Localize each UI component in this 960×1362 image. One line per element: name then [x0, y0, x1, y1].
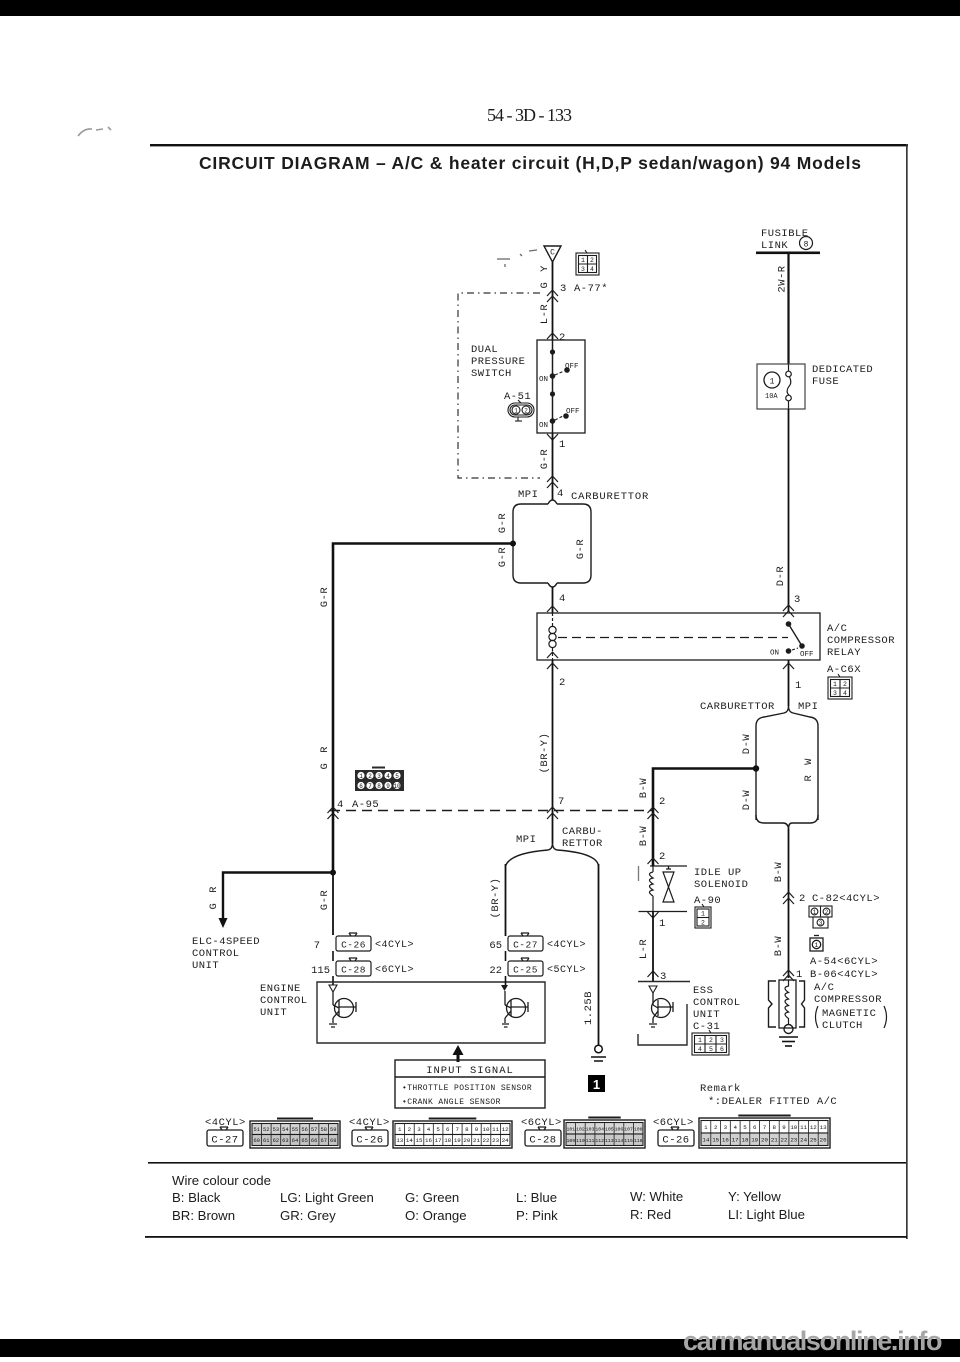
- pin 1 arrow below relay: [783, 663, 794, 669]
- svg-text:1: 1: [796, 969, 802, 981]
- svg-text:MPI: MPI: [516, 834, 536, 846]
- svg-text:C-28: C-28: [341, 965, 366, 976]
- junction dot ELC branch: [330, 870, 336, 876]
- crossing arrows into compressor: [783, 970, 794, 981]
- svg-text:ENGINE: ENGINE: [260, 983, 301, 995]
- svg-text:G-R: G-R: [497, 513, 509, 534]
- svg-text:•THROTTLE POSITION SENSOR: •THROTTLE POSITION SENSOR: [402, 1084, 532, 1093]
- wire BR-Y relay pin 2 down: [552, 660, 554, 843]
- dashed boundary around dual pressure switch: [458, 293, 540, 478]
- svg-text:1: 1: [795, 680, 801, 692]
- dedicated fuse label: [812, 364, 873, 388]
- pin 2 arrow into solenoid: [648, 858, 659, 864]
- svg-text:1: 1: [698, 1037, 702, 1044]
- svg-text:A-51: A-51: [504, 391, 531, 403]
- dedicated fuse element: [786, 364, 792, 409]
- bottom connector C-28 tag: [525, 1127, 561, 1147]
- connector A-51 icon: [508, 400, 534, 421]
- svg-text:1: 1: [398, 1126, 402, 1133]
- svg-text:Y: Yellow: Y: Yellow: [728, 1189, 781, 1204]
- connector A-C6X icon: [828, 674, 852, 699]
- wire G-R down to junction: [332, 810, 334, 935]
- dedicated fuse box: [757, 364, 805, 409]
- svg-text:CLUTCH: CLUTCH: [822, 1020, 863, 1032]
- svg-text:10: 10: [790, 1124, 797, 1131]
- crossing arrows C-82: [783, 892, 794, 904]
- svg-text:4: 4: [559, 593, 565, 605]
- wire relay pin 1 down: [788, 660, 790, 706]
- svg-text:C-27: C-27: [211, 1135, 238, 1147]
- thick wire branch to ELC-4speed: [223, 873, 333, 921]
- ESS input triangle: [649, 986, 657, 993]
- svg-text:24: 24: [800, 1137, 807, 1144]
- svg-text:53: 53: [273, 1127, 279, 1133]
- svg-text:G-R: G-R: [319, 587, 331, 608]
- svg-text:115: 115: [624, 1138, 633, 1144]
- svg-text:INPUT SIGNAL: INPUT SIGNAL: [426, 1065, 514, 1077]
- svg-text:56: 56: [301, 1127, 307, 1133]
- svg-text:5: 5: [709, 1046, 713, 1053]
- svg-text:<4CYL>: <4CYL>: [547, 940, 586, 951]
- contact1 dashed throw and labels: [555, 371, 564, 375]
- svg-text:O: Orange: O: Orange: [405, 1208, 467, 1223]
- ELC-4speed control unit label: [192, 936, 260, 972]
- svg-text:A-C6X: A-C6X: [827, 664, 861, 676]
- svg-text:A-90: A-90: [694, 895, 721, 907]
- svg-text:D-R: D-R: [775, 566, 787, 587]
- svg-text:2: 2: [559, 677, 565, 689]
- relay label: [827, 623, 895, 659]
- svg-text:1.25B: 1.25B: [583, 991, 595, 1025]
- left branch wire BR-Y to ECU connectors: [505, 864, 507, 936]
- pin 4 arrow: [547, 606, 558, 612]
- svg-text:19: 19: [454, 1137, 461, 1144]
- svg-text:A/C: A/C: [827, 623, 847, 635]
- svg-text:54: 54: [282, 1127, 288, 1133]
- svg-text:21: 21: [771, 1137, 778, 1144]
- svg-text:A-54<6CYL>: A-54<6CYL>: [810, 956, 878, 968]
- bottom connector C-27 pin block: [250, 1119, 340, 1149]
- pin 3 crossing arrows into relay: [783, 605, 794, 617]
- svg-text:BR: Brown: BR: Brown: [172, 1208, 235, 1223]
- svg-text:14: 14: [406, 1137, 413, 1144]
- ECU transistor right: [502, 991, 528, 1027]
- frame top line: [150, 144, 908, 146]
- svg-text:G-R: G-R: [575, 539, 587, 560]
- svg-text:3: 3: [560, 283, 566, 295]
- ECU input triangle right: [501, 985, 508, 991]
- svg-text:5: 5: [395, 773, 399, 780]
- svg-text:1: 1: [593, 1077, 600, 1092]
- svg-text:DUAL: DUAL: [471, 344, 498, 356]
- svg-text:R: Red: R: Red: [630, 1207, 671, 1222]
- svg-text:MAGNETIC: MAGNETIC: [822, 1008, 876, 1020]
- junction dot carb connector left: [510, 541, 516, 547]
- svg-text:58: 58: [320, 1127, 326, 1133]
- svg-text:1: 1: [659, 918, 665, 930]
- ECU transistor left: [329, 992, 356, 1027]
- svg-text:LI: Light Blue: LI: Light Blue: [728, 1207, 805, 1222]
- svg-text:C: C: [550, 249, 555, 258]
- connector C-25 tag 5cyl: [508, 958, 543, 976]
- svg-text:C-26: C-26: [662, 1135, 689, 1147]
- svg-text:4: 4: [557, 488, 563, 500]
- svg-text:1: 1: [581, 257, 585, 264]
- svg-text:DEDICATED: DEDICATED: [812, 364, 873, 376]
- svg-text:5: 5: [743, 1124, 747, 1131]
- svg-text:3: 3: [724, 1124, 728, 1131]
- fusible link bus bar: [756, 252, 820, 255]
- svg-text:16: 16: [722, 1137, 729, 1144]
- svg-text:OFF: OFF: [565, 363, 579, 371]
- svg-text:6: 6: [720, 1046, 724, 1053]
- svg-text:19: 19: [751, 1137, 758, 1144]
- svg-text:A-95: A-95: [352, 799, 379, 811]
- svg-text:10A: 10A: [765, 393, 778, 401]
- svg-text:C-27: C-27: [513, 940, 538, 951]
- svg-text:15: 15: [712, 1137, 719, 1144]
- svg-text:115: 115: [311, 965, 330, 977]
- svg-text:68: 68: [330, 1138, 336, 1144]
- relay switch: [770, 621, 814, 659]
- svg-text:2: 2: [659, 851, 665, 863]
- wire G-R switch to carburettor connector: [552, 433, 554, 500]
- arrow into input signal box: [453, 1045, 464, 1062]
- svg-text:23: 23: [492, 1137, 499, 1144]
- svg-text:D-W: D-W: [741, 734, 753, 755]
- svg-text:B: Black: B: Black: [172, 1190, 221, 1205]
- svg-text:4: 4: [337, 799, 343, 811]
- svg-text:ELC-4SPEED: ELC-4SPEED: [192, 936, 260, 948]
- svg-text:1: 1: [833, 681, 837, 688]
- svg-text:P: Pink: P: Pink: [516, 1208, 558, 1223]
- magnetic clutch label with parens: [816, 1006, 887, 1032]
- input signal box: [395, 1060, 545, 1108]
- svg-text:61: 61: [263, 1138, 269, 1144]
- svg-text:6: 6: [359, 783, 363, 790]
- crossing arrows on wire above L-R: [547, 290, 558, 302]
- dual pressure switch box: [537, 340, 585, 433]
- svg-text:L-R: L-R: [638, 939, 650, 960]
- ground for 1.25B wire: [591, 1045, 606, 1061]
- svg-text:3: 3: [377, 773, 381, 780]
- brace split to two branches: [506, 843, 599, 866]
- svg-text:2: 2: [799, 893, 805, 905]
- wire 2W-R fusible link to dedicated fuse: [787, 254, 789, 364]
- svg-text:1: 1: [701, 911, 705, 918]
- svg-text:52: 52: [263, 1127, 269, 1133]
- svg-text:107: 107: [624, 1127, 633, 1133]
- svg-text:LINK: LINK: [761, 240, 788, 252]
- svg-text:MPI: MPI: [518, 489, 538, 501]
- svg-text:108: 108: [634, 1127, 643, 1133]
- svg-text:6: 6: [753, 1124, 757, 1131]
- svg-text:UNIT: UNIT: [192, 960, 219, 972]
- svg-text:C-26: C-26: [341, 940, 366, 951]
- pin 1 arrow below solenoid: [648, 912, 659, 918]
- bottom connector C-26b tag: [658, 1127, 694, 1147]
- frame right border: [906, 144, 908, 1239]
- svg-text:4: 4: [843, 690, 847, 697]
- svg-text:C-31: C-31: [693, 1021, 720, 1033]
- svg-text:57: 57: [311, 1127, 317, 1133]
- svg-text:4: 4: [590, 266, 594, 273]
- svg-text:106: 106: [615, 1127, 624, 1133]
- svg-text:1: 1: [815, 942, 819, 949]
- svg-text:2: 2: [368, 773, 372, 780]
- svg-text:B-W: B-W: [773, 862, 785, 883]
- right branch wire 1.25B to ground: [598, 864, 600, 1045]
- svg-text:G R: G R: [319, 745, 331, 770]
- svg-text:6: 6: [446, 1126, 450, 1133]
- svg-text:D-W: D-W: [741, 790, 753, 811]
- svg-text:18: 18: [742, 1137, 749, 1144]
- connector A-95 icon: [355, 768, 404, 792]
- svg-text:2: 2: [590, 257, 594, 264]
- svg-text:102: 102: [576, 1127, 585, 1133]
- svg-text:110: 110: [576, 1138, 585, 1144]
- svg-text:1: 1: [559, 439, 565, 451]
- svg-text:22: 22: [781, 1137, 788, 1144]
- svg-text:G-R: G-R: [497, 547, 509, 568]
- scan noise near connector C: [497, 250, 537, 267]
- svg-text:54 - 3D - 133: 54 - 3D - 133: [487, 105, 572, 125]
- svg-text:116: 116: [634, 1138, 643, 1144]
- svg-text:2W-R: 2W-R: [777, 265, 789, 292]
- svg-text:MPI: MPI: [798, 701, 818, 713]
- pin 1 arrow out of switch: [547, 434, 558, 440]
- svg-text:2: 2: [825, 909, 829, 916]
- svg-text:2: 2: [843, 681, 847, 688]
- svg-text:9: 9: [475, 1126, 479, 1133]
- svg-text:8: 8: [773, 1124, 777, 1131]
- svg-text:ON: ON: [539, 376, 548, 384]
- svg-text:7: 7: [558, 796, 564, 808]
- crossing arrows at boundary pin 7: [547, 807, 558, 819]
- brace notch into pass-through box: [784, 706, 793, 713]
- svg-text:3: 3: [819, 920, 823, 927]
- bottom connector C-26b pin block: [699, 1116, 830, 1149]
- svg-text:<6CYL>: <6CYL>: [375, 965, 414, 976]
- svg-text:<4CYL>: <4CYL>: [375, 940, 414, 951]
- svg-text:ESS: ESS: [693, 985, 713, 997]
- corner wire B-W from junction: [653, 769, 756, 867]
- A/C compressor magnetic clutch coil: [769, 980, 805, 1034]
- dashed harness boundary line: [330, 810, 653, 812]
- svg-text:2: 2: [714, 1124, 718, 1131]
- svg-text:G R: G R: [208, 885, 220, 910]
- carburettor connector pass-through box: [513, 500, 591, 587]
- svg-text:CARBURETTOR: CARBURETTOR: [700, 701, 775, 713]
- svg-text:18: 18: [444, 1137, 451, 1144]
- svg-text:9: 9: [782, 1124, 786, 1131]
- svg-text:COMPRESSOR: COMPRESSOR: [827, 635, 895, 647]
- svg-text:17: 17: [732, 1137, 739, 1144]
- svg-text:G: Green: G: Green: [405, 1190, 459, 1205]
- svg-text:3: 3: [417, 1126, 421, 1133]
- svg-text:CONTROL: CONTROL: [192, 948, 240, 960]
- wire G-Y / L-R from C to dual pressure switch: [552, 262, 554, 340]
- svg-text:65: 65: [489, 940, 502, 952]
- svg-text:B-W: B-W: [773, 936, 785, 957]
- bottom connector C-28 pin block: [564, 1118, 645, 1149]
- svg-text:1: 1: [770, 378, 775, 387]
- svg-text:113: 113: [605, 1138, 614, 1144]
- svg-text:SOLENOID: SOLENOID: [694, 879, 748, 891]
- svg-text:8: 8: [377, 783, 381, 790]
- svg-text:24: 24: [502, 1137, 509, 1144]
- wire dedicated fuse to A/C compressor relay pin 3: [788, 409, 790, 612]
- crossing arrows on G-R wire at boundary: [328, 807, 339, 819]
- svg-text:Wire colour code: Wire colour code: [172, 1173, 271, 1188]
- svg-text:16: 16: [425, 1137, 432, 1144]
- legend text: [172, 1173, 805, 1223]
- svg-text:<5CYL>: <5CYL>: [547, 965, 586, 976]
- scan smudge top-left: [78, 127, 111, 136]
- ESS control unit outline: [638, 982, 690, 1046]
- svg-text:21: 21: [473, 1137, 480, 1144]
- svg-text:63: 63: [282, 1138, 288, 1144]
- svg-text:2: 2: [659, 796, 665, 808]
- svg-text:ON: ON: [539, 422, 548, 430]
- dedicated fuse circled 1: [764, 372, 780, 388]
- svg-text:66: 66: [311, 1138, 317, 1144]
- svg-text:4: 4: [386, 773, 390, 780]
- svg-text:3: 3: [833, 690, 837, 697]
- wire B-W box to compressor: [788, 829, 790, 978]
- svg-text:4: 4: [698, 1046, 702, 1053]
- pin 3 arrow into ESS: [648, 971, 659, 977]
- svg-text:7: 7: [314, 940, 320, 952]
- svg-text:11: 11: [492, 1126, 499, 1133]
- svg-text:carmanualsonline.info: carmanualsonline.info: [683, 1326, 943, 1356]
- engine control unit box: [317, 982, 545, 1043]
- A/C compressor relay box: [537, 613, 820, 660]
- svg-text:12: 12: [502, 1126, 509, 1133]
- svg-text:W: White: W: White: [630, 1189, 683, 1204]
- svg-text:26: 26: [820, 1137, 827, 1144]
- svg-text:17: 17: [435, 1137, 442, 1144]
- svg-text:UNIT: UNIT: [693, 1009, 720, 1021]
- connector B-06 icon: [810, 936, 823, 952]
- svg-text:5: 5: [436, 1126, 440, 1133]
- svg-text:20: 20: [761, 1137, 768, 1144]
- idle up solenoid component: [639, 866, 688, 912]
- connector C-28 tag 6cyl: [336, 958, 371, 976]
- svg-text:C-82<4CYL>: C-82<4CYL>: [812, 893, 880, 905]
- svg-text:G Y: G Y: [539, 264, 551, 289]
- crossing arrows at harness boundary: [547, 476, 558, 488]
- svg-text:105: 105: [605, 1127, 614, 1133]
- svg-text:•CRANK ANGLE SENSOR: •CRANK ANGLE SENSOR: [402, 1098, 501, 1107]
- svg-text:R W: R W: [803, 757, 815, 782]
- svg-text:G-R: G-R: [319, 890, 331, 911]
- svg-text:112: 112: [595, 1138, 604, 1144]
- ESS control unit label: [693, 985, 741, 1033]
- svg-text:1: 1: [704, 1124, 708, 1131]
- fusible link circled 8: [800, 237, 813, 250]
- svg-text:25: 25: [810, 1137, 817, 1144]
- svg-text:Remark: Remark: [700, 1083, 741, 1095]
- svg-text:60: 60: [254, 1138, 260, 1144]
- svg-text:22: 22: [489, 965, 502, 977]
- wire between C-26 and C-28: [332, 951, 334, 961]
- connector C-26 tag 4cyl: [336, 933, 371, 951]
- svg-text:C-25: C-25: [513, 965, 538, 976]
- relay linkage dashed line: [558, 637, 788, 639]
- svg-text:B-W: B-W: [638, 778, 650, 799]
- junction dot on box left edge: [753, 765, 759, 771]
- dual pressure switch label: [471, 344, 525, 380]
- bottom connector C-26 pin block: [393, 1119, 512, 1149]
- svg-text:ON: ON: [770, 650, 779, 658]
- svg-text:7: 7: [763, 1124, 767, 1131]
- svg-text:UNIT: UNIT: [260, 1007, 287, 1019]
- svg-text:3: 3: [581, 266, 585, 273]
- top black scan bar: [0, 0, 960, 16]
- svg-text:A-77*: A-77*: [574, 283, 608, 295]
- pin 2 arrow into switch: [547, 333, 558, 339]
- frame bottom line: [145, 1236, 907, 1238]
- wire L-R solenoid to ESS unit: [652, 911, 654, 981]
- wire carb connector to relay pin 4: [552, 587, 554, 613]
- svg-text:10: 10: [393, 783, 401, 790]
- wire C-25 to ECU: [505, 976, 507, 985]
- svg-text:B-W: B-W: [638, 826, 650, 847]
- svg-text:8: 8: [465, 1126, 469, 1133]
- svg-text:64: 64: [292, 1138, 298, 1144]
- svg-text:(BR-Y): (BR-Y): [539, 733, 551, 774]
- svg-text:11: 11: [800, 1124, 807, 1131]
- svg-text:13: 13: [396, 1137, 403, 1144]
- svg-text:B-06<4CYL>: B-06<4CYL>: [810, 969, 878, 981]
- svg-text:14: 14: [702, 1137, 709, 1144]
- svg-text:12: 12: [810, 1124, 817, 1131]
- svg-text:2: 2: [408, 1126, 412, 1133]
- fusible link label: [761, 228, 809, 252]
- svg-text:20: 20: [463, 1137, 470, 1144]
- bottom connector C-26 tag: [352, 1127, 388, 1147]
- svg-text:13: 13: [820, 1124, 827, 1131]
- svg-text:9: 9: [386, 783, 390, 790]
- svg-text:3: 3: [720, 1037, 724, 1044]
- svg-text:PRESSURE: PRESSURE: [471, 356, 525, 368]
- svg-text:55: 55: [292, 1127, 298, 1133]
- svg-text:(BR-Y): (BR-Y): [490, 878, 502, 919]
- svg-text:G-R: G-R: [539, 449, 551, 470]
- svg-text:*:DEALER FITTED A/C: *:DEALER FITTED A/C: [708, 1096, 837, 1108]
- svg-text:109: 109: [566, 1138, 575, 1144]
- svg-text:7: 7: [368, 783, 372, 790]
- svg-text:GR: Grey: GR: Grey: [280, 1208, 336, 1223]
- svg-text:RELAY: RELAY: [827, 647, 861, 659]
- svg-text:OFF: OFF: [566, 408, 580, 416]
- svg-text:IDLE UP: IDLE UP: [694, 867, 742, 879]
- connector C-31 icon: [692, 1030, 729, 1055]
- compressor ground: [779, 1037, 798, 1046]
- svg-text:2: 2: [709, 1037, 713, 1044]
- svg-text:RETTOR: RETTOR: [562, 838, 603, 850]
- svg-text:8: 8: [804, 241, 809, 250]
- svg-text:4: 4: [733, 1124, 737, 1131]
- MPI pass-through connector box: [756, 713, 818, 829]
- svg-text:OFF: OFF: [800, 651, 814, 659]
- connector C triangle: [544, 246, 561, 262]
- switch wire segments: [552, 340, 554, 376]
- svg-text:CIRCUIT DIAGRAM – A/C & heater: CIRCUIT DIAGRAM – A/C & heater circuit (…: [199, 153, 861, 173]
- bottom black scan bar: [0, 1339, 960, 1357]
- svg-text:SWITCH: SWITCH: [471, 368, 512, 380]
